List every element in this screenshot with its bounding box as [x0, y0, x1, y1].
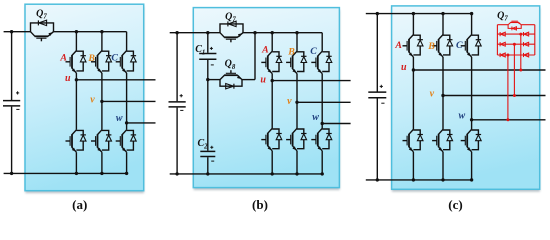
svg-text:(a): (a) [72, 197, 87, 212]
node: bottom rail junctions (b) [175, 172, 178, 175]
svg-text:B: B [87, 53, 95, 64]
wire leg A upper (c) [412, 14, 414, 35]
IGBT bottom switch leg A (b) [268, 128, 272, 133]
wire leg A lower (a) [75, 152, 77, 173]
wire leg A lower (b) [271, 151, 273, 174]
svg-text:w: w [312, 112, 319, 123]
bypass switch Q7 (b) [220, 24, 243, 33]
wire leg B middle (c) [442, 57, 444, 129]
wire leg C upper (c) [471, 14, 473, 35]
output line u (b) [272, 80, 350, 82]
node: top rail junctions (b) [175, 31, 178, 34]
red diode row 1 left [499, 32, 501, 36]
node v (b) [295, 101, 298, 104]
bypass switch Q7 (a) [31, 23, 54, 32]
red wire drop to w [507, 55, 509, 120]
IGBT bottom switch leg C (b) [318, 128, 322, 133]
IGBT bottom switch leg B (c) [439, 129, 443, 134]
svg-text:u: u [65, 73, 71, 84]
red right bus [534, 25, 536, 55]
node w (b) [321, 122, 324, 125]
minus sign (c source) [381, 102, 384, 104]
capacitor Vdc (a) leads [11, 32, 13, 100]
wire Q8 left [208, 79, 220, 81]
output line w (c) [472, 119, 546, 121]
IGBT top switch leg A (a) [72, 51, 76, 56]
capacitor C2 plates [200, 150, 215, 152]
DC source capacitor (c) plates [368, 91, 386, 93]
wire leg A middle (a) [75, 73, 77, 130]
DC source stub + top rail (b) [170, 32, 220, 34]
DC source positive stub wire [4, 31, 31, 33]
red diode row 3 left [499, 53, 501, 57]
red node on v line [513, 94, 516, 97]
wire leg B lower (a) [101, 152, 103, 173]
output line v (b) [297, 101, 351, 103]
wire leg C upper (b) [321, 33, 323, 52]
wire leg C middle (c) [471, 57, 473, 129]
output line u (c) [413, 69, 545, 71]
node: bottom rail junctions (a) [10, 172, 13, 175]
node: bottom rail junctions (c) [376, 178, 379, 181]
IGBT top switch leg A (c) [409, 35, 413, 40]
wire leg A middle (b) [271, 74, 273, 129]
red top bus wire [497, 24, 508, 26]
node u (c) [412, 68, 415, 71]
node w (a) [125, 121, 128, 124]
output line u (a) [76, 79, 155, 81]
plus sign (b source) [180, 95, 183, 97]
plus sign (C2) [210, 146, 213, 148]
wire leg C lower (b) [321, 151, 323, 174]
DC source capacitor (b) plates [169, 101, 186, 103]
IGBT bottom switch leg B (b) [293, 128, 297, 133]
red wire drop to u [520, 34, 522, 70]
minus sign (a source) [16, 108, 19, 110]
wire leg B upper (a) [101, 32, 103, 51]
wire leg B middle (a) [101, 73, 103, 130]
wire leg B middle (b) [296, 74, 298, 129]
panel (b) background box [194, 10, 340, 190]
wire leg C lower (a) [126, 152, 128, 173]
red rectifier row 2 wire [497, 43, 534, 45]
red bypass switch Q7 (c) [508, 25, 521, 29]
svg-text:B: B [427, 41, 435, 52]
wire leg C middle (b) [321, 74, 323, 129]
red node on w line [506, 118, 509, 121]
top rail (c) [366, 13, 472, 15]
red diode row 2 right [523, 42, 525, 46]
wire leg C middle (a) [126, 73, 128, 130]
red diode row 3 right [523, 53, 525, 57]
wire leg C lower (c) [471, 152, 473, 180]
node: C1/Q8 junction [206, 78, 209, 81]
bottom rail (c) [366, 179, 472, 181]
wire leg B upper (b) [296, 33, 298, 52]
red left bus [496, 25, 498, 55]
wire leg B lower (b) [296, 151, 298, 174]
capacitor C1 lead [207, 33, 209, 53]
output line w (b) [322, 123, 350, 125]
plus sign (c source) [380, 85, 383, 87]
DC source negative stub wire [4, 172, 127, 174]
IGBT top switch leg B (b) [293, 51, 297, 56]
capacitor C1 plates [199, 53, 216, 55]
wire leg B lower (c) [442, 152, 444, 180]
red rectifier row 1 wire [497, 33, 534, 35]
node: top rail junctions (a) [10, 30, 13, 33]
red node row 1 tap [519, 33, 522, 36]
node v (c) [441, 94, 444, 97]
svg-text:v: v [430, 88, 435, 99]
red diode row 2 left [499, 42, 501, 46]
plus sign (a source) [16, 92, 19, 94]
svg-text:u: u [401, 62, 407, 73]
output line v (c) [443, 95, 546, 97]
svg-text:u: u [260, 74, 266, 85]
wire leg A upper (a) [75, 32, 77, 51]
node u (a) [75, 78, 78, 81]
bypass switch Q8 [220, 80, 242, 87]
output line v (a) [102, 100, 156, 102]
output line w (a) [127, 122, 156, 124]
wire leg A lower (c) [412, 152, 414, 180]
node: top rail junctions (c) [376, 12, 379, 15]
IGBT bottom switch leg C (c) [467, 129, 471, 134]
svg-text:(c): (c) [448, 197, 462, 212]
wire leg C upper (a) [126, 32, 128, 51]
svg-text:C: C [456, 40, 463, 51]
red node row 3 tap [506, 54, 509, 57]
IGBT top switch leg B (c) [439, 35, 443, 40]
svg-text:v: v [287, 96, 292, 107]
minus sign (C2) [211, 160, 214, 162]
svg-text:B: B [287, 46, 295, 57]
node w (c) [470, 118, 473, 121]
IGBT top switch leg A (b) [268, 51, 272, 56]
IGBT bottom switch leg C (a) [122, 130, 126, 135]
red node on u line [519, 69, 522, 72]
DC source capacitor (b) leads [176, 33, 178, 102]
node u (b) [271, 79, 274, 82]
svg-text:w: w [116, 113, 123, 124]
capacitor C2 lead [207, 80, 209, 151]
wire Q8 right + riser [242, 79, 255, 81]
red diode row 1 right [523, 32, 525, 36]
svg-text:v: v [90, 95, 95, 106]
IGBT top switch leg B (a) [98, 51, 102, 56]
minus sign (C1) [211, 64, 214, 66]
node v (a) [100, 100, 103, 103]
wire leg A middle (c) [412, 57, 414, 129]
IGBT top switch leg C (c) [467, 35, 471, 40]
capacitor Vdc (a) plates [3, 100, 20, 102]
DC source capacitor (c) leads [376, 14, 378, 92]
svg-text:C: C [111, 52, 118, 63]
IGBT top switch leg C (b) [318, 51, 322, 56]
svg-text:w: w [458, 111, 465, 122]
wire leg B upper (c) [442, 14, 444, 35]
red node row 2 tap [513, 43, 516, 46]
IGBT bottom switch leg A (a) [72, 130, 76, 135]
svg-text:(b): (b) [252, 197, 268, 212]
wire leg A upper (b) [271, 33, 273, 52]
top rail wire (a) [54, 31, 127, 33]
IGBT bottom switch leg B (a) [98, 130, 102, 135]
red wire drop to v [513, 44, 515, 95]
svg-text:A: A [394, 40, 402, 51]
minus sign (b source) [180, 109, 183, 111]
panel (a) background box [25, 7, 144, 194]
plus sign (C1) [210, 47, 213, 49]
IGBT top switch leg C (a) [122, 51, 126, 56]
bottom rail (b) [170, 173, 323, 175]
svg-text:A: A [59, 53, 67, 64]
red rectifier row 3 wire [497, 54, 534, 56]
panel (c) background box [392, 8, 540, 191]
svg-text:C: C [310, 46, 317, 57]
IGBT bottom switch leg A (c) [409, 129, 413, 134]
svg-text:A: A [261, 45, 269, 56]
